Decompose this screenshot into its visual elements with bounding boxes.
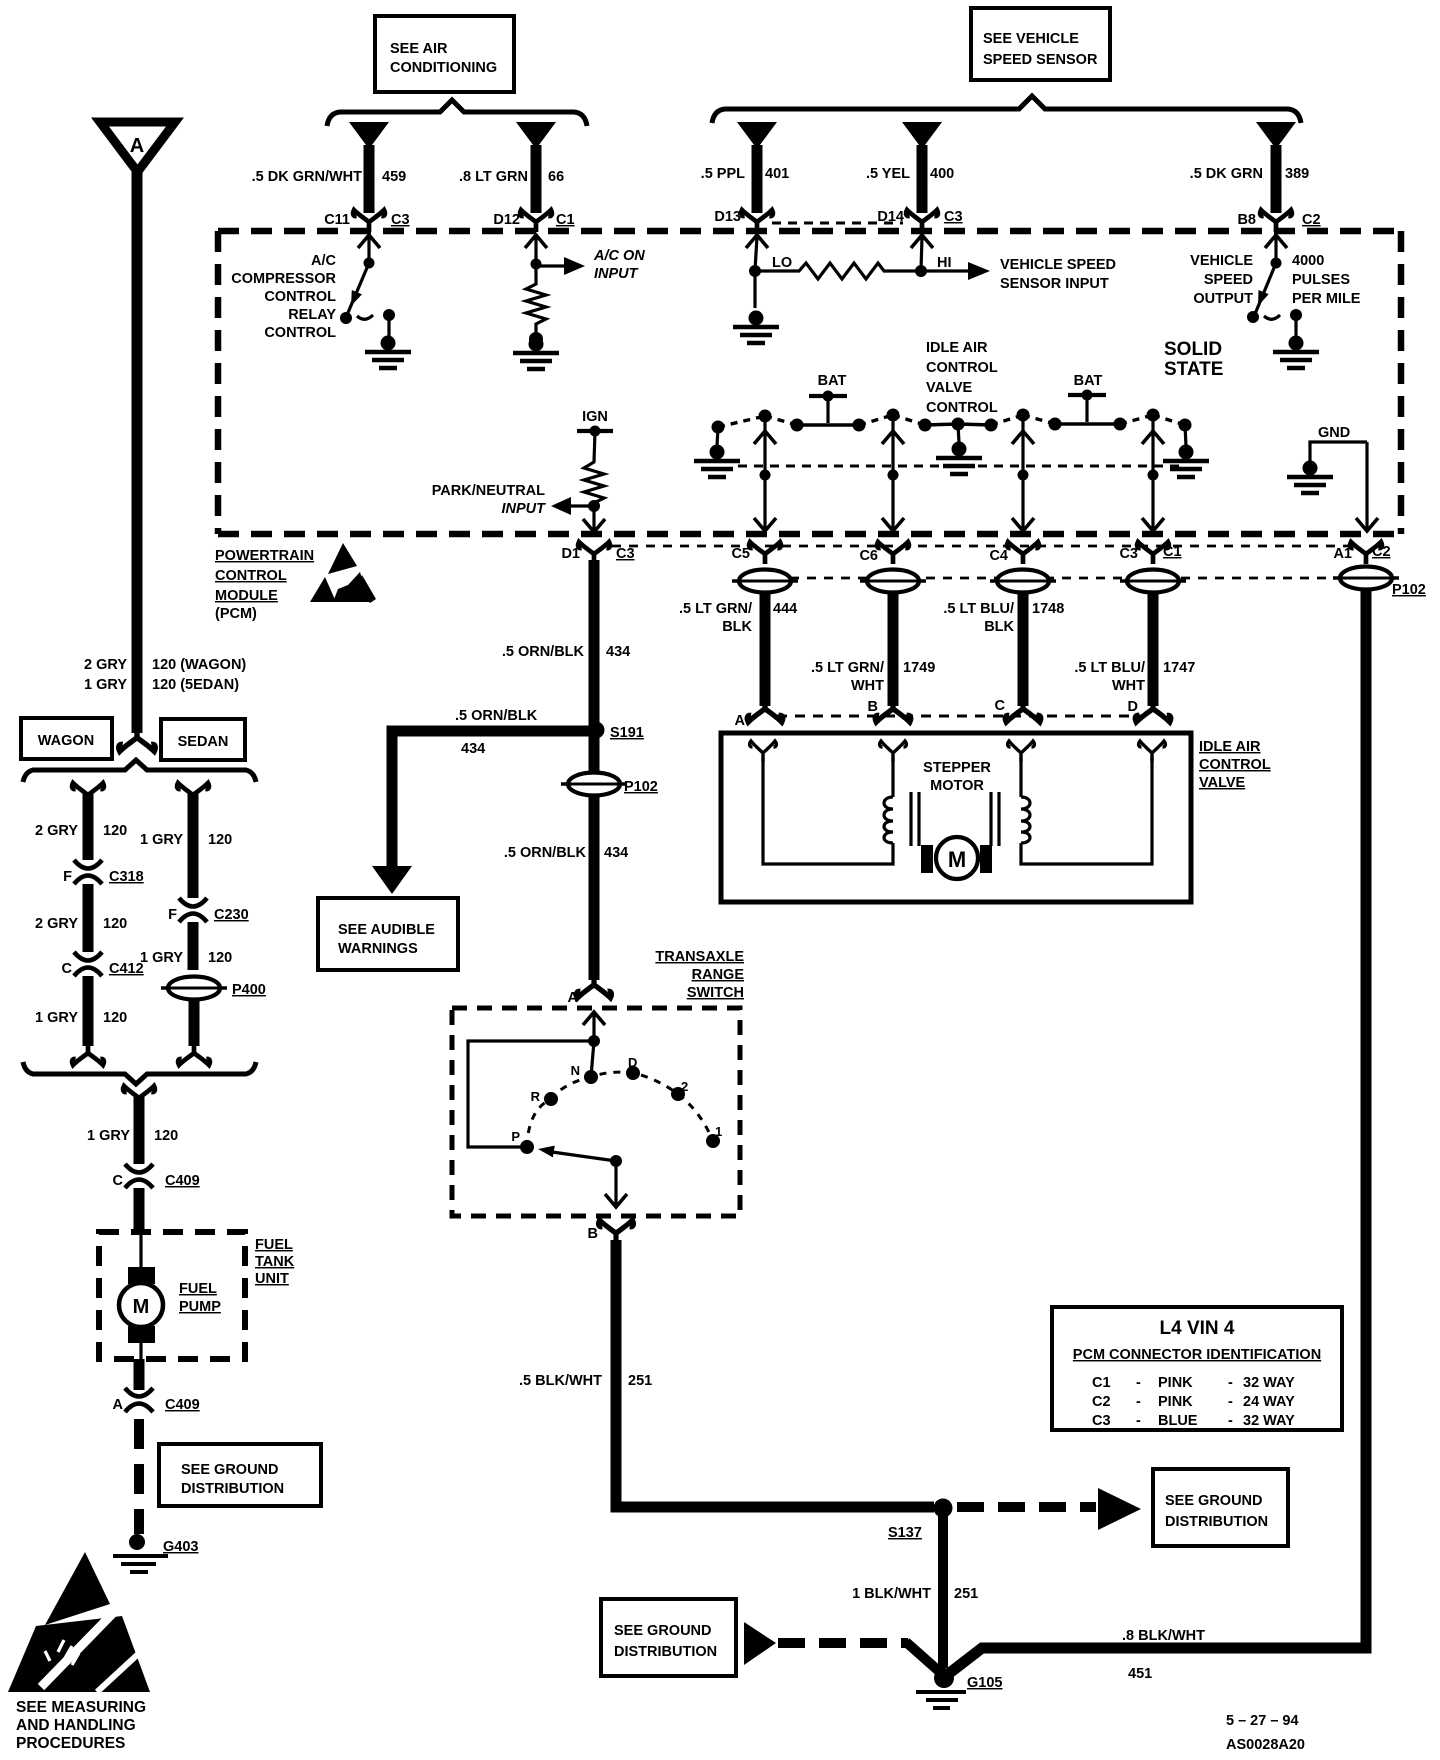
IAC pin forks inside box (750, 741, 777, 762)
IGN feed with park/neutral resistor (551, 409, 613, 532)
svg-text:P102: P102 (624, 779, 658, 795)
harness connector P400 (161, 977, 266, 1000)
svg-text:120 (5EDAN): 120 (5EDAN) (152, 677, 239, 693)
box SEE VEHICLE SPEED SENSOR (971, 8, 1110, 80)
svg-text:PARK/NEUTRAL: PARK/NEUTRAL (432, 483, 545, 499)
svg-text:1 BLK/WHT: 1 BLK/WHT (852, 1586, 931, 1602)
svg-text:251: 251 (628, 1373, 652, 1389)
svg-text:INPUT: INPUT (594, 266, 639, 282)
GND output hook (1310, 425, 1367, 461)
svg-text:CONTROL: CONTROL (1199, 757, 1271, 773)
svg-text:FUEL: FUEL (179, 1281, 217, 1297)
connector C11 C3 (324, 210, 409, 232)
svg-text:SOLID: SOLID (1164, 339, 1222, 360)
svg-text:CONTROL: CONTROL (215, 568, 287, 584)
svg-text:POWERTRAIN: POWERTRAIN (215, 548, 314, 564)
svg-text:P400: P400 (232, 982, 266, 998)
svg-text:1747: 1747 (1163, 660, 1195, 676)
svg-text:.5 ORN/BLK: .5 ORN/BLK (504, 845, 587, 861)
svg-text:TANK: TANK (255, 1254, 295, 1270)
connector C318 pin F (63, 860, 144, 885)
wire arrow .5 PPL 401 (D13) (737, 122, 777, 213)
svg-text:CONDITIONING: CONDITIONING (390, 60, 497, 76)
svg-text:120: 120 (208, 950, 232, 966)
svg-text:1 GRY: 1 GRY (84, 677, 127, 693)
fuel pump feed wire (123, 1086, 155, 1164)
IAC valve box (721, 733, 1191, 902)
wire arrow .5 DK GRN 389 (B8) (1256, 122, 1296, 213)
svg-text:D: D (628, 1055, 637, 1070)
svg-text:S137: S137 (888, 1525, 922, 1541)
svg-text:D12: D12 (493, 212, 520, 228)
TRS input arrow (583, 1012, 605, 1047)
IAC driver line C6 (882, 419, 904, 531)
svg-text:C318: C318 (109, 869, 144, 885)
svg-text:TRANSAXLE: TRANSAXLE (655, 949, 744, 965)
svg-text:.5 ORN/BLK: .5 ORN/BLK (502, 644, 585, 660)
svg-text:STEPPER: STEPPER (923, 760, 991, 776)
ground G105 (916, 1668, 1002, 1708)
TRS contacts P R N D 2 1 (520, 1066, 720, 1154)
svg-text:434: 434 (604, 845, 628, 861)
svg-text:C6: C6 (859, 548, 878, 564)
svg-text:RANGE: RANGE (692, 967, 745, 983)
svg-text:SEE VEHICLE: SEE VEHICLE (983, 31, 1079, 47)
brace under SEE VEHICLE SPEED SENSOR (712, 96, 1301, 123)
box L4 VIN 4 PCM connector identification (1052, 1307, 1342, 1430)
main wire D1 down to A (TRS) (589, 560, 600, 980)
stepper motor M (921, 837, 992, 879)
svg-text:-: - (1136, 1413, 1141, 1429)
connector C409 pin C (113, 1164, 200, 1189)
svg-text:C11: C11 (324, 212, 350, 228)
svg-text:(PCM): (PCM) (215, 606, 257, 622)
svg-text:DISTRIBUTION: DISTRIBUTION (614, 1644, 717, 1660)
TRS wiring loop (468, 1041, 594, 1147)
svg-text:-: - (1228, 1375, 1233, 1391)
svg-text:CONTROL: CONTROL (264, 289, 336, 305)
dashed wire to ground distribution right (957, 1502, 1096, 1512)
BAT feed 1 (809, 373, 847, 423)
svg-text:SPEED: SPEED (1204, 272, 1253, 288)
svg-text:-: - (1228, 1394, 1233, 1410)
labels 2 GRY 120 (WAGON) / 1 GRY 120 (5EDAN) (84, 657, 246, 693)
svg-text:C5: C5 (731, 546, 750, 562)
wire arrow .5 YEL 400 (D14) (902, 122, 942, 213)
svg-text:C2: C2 (1372, 544, 1391, 560)
svg-text:C: C (995, 698, 1006, 714)
svg-text:2 GRY: 2 GRY (35, 823, 78, 839)
svg-text:WHT: WHT (851, 678, 884, 694)
svg-text:VEHICLE: VEHICLE (1190, 253, 1253, 269)
label IDLE AIR CONTROL VALVE (1199, 739, 1271, 791)
svg-text:PER MILE: PER MILE (1292, 291, 1361, 307)
svg-text:P: P (511, 1129, 520, 1144)
label SEE MEASURING AND HANDLING PROCEDURES (16, 1699, 146, 1752)
svg-text:PINK: PINK (1158, 1375, 1193, 1391)
svg-text:SWITCH: SWITCH (687, 985, 744, 1001)
ground on chain middle (936, 424, 982, 474)
box SEE AIR CONDITIONING (375, 16, 514, 92)
svg-text:120: 120 (103, 1010, 127, 1026)
svg-text:24 WAY: 24 WAY (1243, 1394, 1295, 1410)
svg-text:.5 DK GRN/WHT: .5 DK GRN/WHT (252, 169, 363, 185)
svg-text:4000: 4000 (1292, 253, 1324, 269)
svg-text:FUEL: FUEL (255, 1237, 293, 1253)
svg-text:CONTROL: CONTROL (926, 360, 998, 376)
connector B8 C2 (1237, 210, 1320, 232)
wire S137 down to G105 (938, 1516, 948, 1668)
wire end fork at split (119, 726, 156, 751)
svg-text:IGN: IGN (582, 409, 608, 425)
wagon branch wire (72, 783, 104, 860)
label FUEL PUMP (179, 1281, 221, 1315)
svg-text:.5 YEL: .5 YEL (866, 166, 910, 182)
ESD symbol large (8, 1552, 150, 1692)
svg-text:-: - (1136, 1394, 1141, 1410)
svg-text:120 (WAGON): 120 (WAGON) (152, 657, 246, 673)
harness connector oval A1 with P102 label (1333, 567, 1426, 599)
svg-text:C2: C2 (1092, 1394, 1111, 1410)
svg-text:G403: G403 (163, 1539, 198, 1555)
svg-text:.5 PPL: .5 PPL (701, 166, 745, 182)
svg-text:WAGON: WAGON (38, 733, 94, 749)
brace under SEE AIR CONDITIONING (327, 100, 587, 126)
svg-text:444: 444 (773, 601, 797, 617)
TRS contact arc dashed (527, 1072, 713, 1147)
ground on chain right (1163, 425, 1209, 477)
dashed ground wire (134, 1419, 144, 1534)
svg-text:VALVE: VALVE (1199, 775, 1246, 791)
label POWERTRAIN CONTROL MODULE (PCM) (215, 548, 314, 622)
svg-text:B8: B8 (1237, 212, 1256, 228)
svg-text:MODULE: MODULE (215, 588, 278, 604)
svg-text:D1: D1 (561, 546, 580, 562)
ground below vehicle speed output switch (1273, 336, 1319, 369)
dashed crosslink line (738, 465, 1180, 468)
svg-text:SPEED SENSOR: SPEED SENSOR (983, 52, 1098, 68)
wire from triangle A down to wagon/sedan split (132, 172, 143, 733)
svg-text:.5 ORN/BLK: .5 ORN/BLK (455, 708, 538, 724)
svg-text:A1: A1 (1333, 546, 1352, 562)
svg-text:32 WAY: 32 WAY (1243, 1375, 1295, 1391)
svg-text:C4: C4 (989, 548, 1008, 564)
svg-text:IDLE AIR: IDLE AIR (926, 340, 988, 356)
svg-text:VALVE: VALVE (926, 380, 973, 396)
svg-text:.5 BLK/WHT: .5 BLK/WHT (519, 1373, 602, 1389)
TRS dashed box (452, 1008, 740, 1216)
svg-text:.5 LT GRN/: .5 LT GRN/ (811, 660, 884, 676)
svg-text:459: 459 (382, 169, 406, 185)
svg-text:BAT: BAT (818, 373, 847, 389)
harness connector oval C3 (1120, 570, 1186, 593)
connector C230 pin F (168, 898, 249, 923)
svg-text:F: F (63, 869, 72, 885)
label PARK/NEUTRAL INPUT (432, 483, 546, 517)
connector C5 (731, 542, 780, 564)
svg-text:SEE AUDIBLE: SEE AUDIBLE (338, 922, 435, 938)
svg-text:SEE AIR: SEE AIR (390, 41, 448, 57)
svg-text:AS0028A20: AS0028A20 (1226, 1737, 1305, 1753)
label A/C COMPRESSOR CONTROL RELAY CONTROL (231, 253, 336, 341)
svg-text:B: B (868, 699, 878, 715)
harness connector oval C6 (860, 570, 926, 593)
svg-text:STATE: STATE (1164, 359, 1223, 380)
label STEPPER MOTOR (923, 760, 991, 794)
svg-text:SEE MEASURING: SEE MEASURING (16, 1699, 146, 1716)
IAC driver line C4 (1012, 419, 1034, 531)
svg-text:F: F (168, 907, 177, 923)
date and drawing number (1226, 1713, 1305, 1753)
svg-text:DISTRIBUTION: DISTRIBUTION (1165, 1514, 1268, 1530)
harness connector oval C4 (990, 570, 1056, 593)
long wire A1 to G105 (947, 590, 1366, 1675)
svg-text:C3: C3 (391, 212, 410, 228)
label 4000 PULSES PER MILE (1292, 253, 1361, 307)
svg-text:A/C: A/C (311, 253, 337, 269)
fuel pump motor (119, 1232, 163, 1359)
svg-text:B: B (588, 1226, 598, 1242)
svg-text:120: 120 (154, 1128, 178, 1144)
svg-text:S191: S191 (610, 725, 644, 741)
svg-text:.8 BLK/WHT: .8 BLK/WHT (1122, 1628, 1205, 1644)
svg-text:PROCEDURES: PROCEDURES (16, 1735, 125, 1752)
svg-text:HI: HI (937, 255, 952, 271)
dashed wire into G105 (778, 1638, 908, 1648)
svg-text:PUMP: PUMP (179, 1299, 221, 1315)
connector A1 C2 (1333, 542, 1390, 564)
svg-text:BAT: BAT (1074, 373, 1103, 389)
svg-text:CONTROL: CONTROL (264, 325, 336, 341)
connector D1 C3 (561, 542, 634, 564)
svg-text:A: A (568, 990, 579, 1006)
svg-text:DISTRIBUTION: DISTRIBUTION (181, 1481, 284, 1497)
arrow into SEE AUDIBLE WARNINGS (372, 866, 412, 894)
A1 output line (1356, 442, 1378, 531)
svg-text:PINK: PINK (1158, 1394, 1193, 1410)
label VEHICLE SPEED SENSOR INPUT (1000, 257, 1116, 292)
svg-text:1 GRY: 1 GRY (140, 950, 183, 966)
box SEDAN (161, 719, 245, 760)
IAC pin letters and dashed link (777, 715, 1141, 718)
svg-text:SEE GROUND: SEE GROUND (1165, 1493, 1263, 1509)
dashed link across harness ovals to P102 (790, 577, 1400, 580)
svg-text:-: - (1136, 1375, 1141, 1391)
arrow from ground distribution left (744, 1622, 776, 1665)
svg-text:C412: C412 (109, 961, 144, 977)
vehicle speed sensor input LO/HI resistor (746, 235, 990, 308)
svg-text:D14: D14 (877, 209, 904, 225)
box SEE GROUND DISTRIBUTION (fuel) (159, 1444, 321, 1506)
label TRANSAXLE RANGE SWITCH (655, 949, 744, 1001)
svg-text:M: M (948, 847, 966, 872)
svg-text:32 WAY: 32 WAY (1243, 1413, 1295, 1429)
fuel tank unit dashed box (99, 1232, 245, 1359)
box SEE GROUND DISTRIBUTION (right) (1153, 1469, 1288, 1546)
svg-text:2 GRY: 2 GRY (84, 657, 127, 673)
svg-text:M: M (133, 1296, 150, 1318)
svg-text:2: 2 (681, 1079, 688, 1094)
box WAGON (21, 718, 112, 759)
svg-text:389: 389 (1285, 166, 1309, 182)
wire arrow .5 DK GRN/WHT 459 (C11) (349, 122, 389, 213)
connector B below TRS (588, 1220, 634, 1244)
triangle A supply symbol (100, 122, 175, 172)
svg-text:AND HANDLING: AND HANDLING (16, 1717, 136, 1734)
svg-text:.5 DK GRN: .5 DK GRN (1190, 166, 1263, 182)
svg-text:C3: C3 (1119, 546, 1138, 562)
splice S191 branch to audible warnings (392, 722, 644, 869)
svg-text:.5 LT GRN/: .5 LT GRN/ (679, 601, 752, 617)
svg-text:.5 LT BLU/: .5 LT BLU/ (943, 601, 1014, 617)
svg-text:A: A (735, 713, 746, 729)
ground G403 (113, 1534, 198, 1572)
TRS wiper arm (537, 1143, 627, 1207)
svg-text:C3: C3 (1092, 1413, 1111, 1429)
svg-text:UNIT: UNIT (255, 1271, 289, 1287)
svg-text:2 GRY: 2 GRY (35, 916, 78, 932)
svg-text:451: 451 (1128, 1666, 1152, 1682)
svg-text:-: - (1228, 1413, 1233, 1429)
svg-text:400: 400 (930, 166, 954, 182)
harness connector P102 on main wire (561, 773, 658, 796)
connector C409 pin A (113, 1388, 200, 1413)
svg-text:D13: D13 (714, 209, 741, 225)
dashed link D13-D14 (772, 222, 903, 225)
connector D13 (714, 209, 773, 232)
svg-text:C3: C3 (616, 546, 635, 562)
label A/C ON INPUT (593, 248, 645, 282)
svg-text:1749: 1749 (903, 660, 935, 676)
svg-text:P102: P102 (1392, 582, 1426, 598)
harness connector oval C5 (732, 570, 798, 593)
svg-text:C409: C409 (165, 1397, 200, 1413)
svg-text:.5 LT BLU/: .5 LT BLU/ (1074, 660, 1145, 676)
dashed link across connectors (612, 545, 1348, 548)
connector C6 (859, 542, 908, 564)
IAC drive dashed chain (718, 415, 1185, 427)
svg-text:MOTOR: MOTOR (930, 778, 984, 794)
svg-text:C2: C2 (1302, 212, 1321, 228)
label VEHICLE SPEED OUTPUT (1190, 253, 1253, 307)
svg-text:120: 120 (208, 832, 232, 848)
A/C compressor control relay control switch (340, 235, 395, 336)
wire C5 to IAC A (747, 592, 783, 722)
wire dot to N contact (591, 1041, 594, 1077)
svg-text:1748: 1748 (1032, 601, 1064, 617)
ground below A/C relay switch (365, 336, 411, 369)
svg-text:N: N (571, 1063, 580, 1078)
svg-text:C: C (113, 1173, 124, 1189)
svg-text:C1: C1 (1092, 1375, 1111, 1391)
svg-text:VEHICLE SPEED: VEHICLE SPEED (1000, 257, 1116, 273)
ground below A/C ON resistor (513, 337, 559, 370)
svg-text:A: A (130, 135, 144, 157)
wire arrow .8 LT GRN 66 (D12) (516, 122, 556, 213)
svg-text:PCM CONNECTOR IDENTIFICATION: PCM CONNECTOR IDENTIFICATION (1073, 1347, 1321, 1363)
TRS contact labels (511, 1055, 722, 1144)
connector A into TRS (568, 974, 612, 1006)
svg-text:1 GRY: 1 GRY (35, 1010, 78, 1026)
svg-text:SEDAN: SEDAN (178, 734, 229, 750)
svg-text:D: D (1128, 699, 1138, 715)
svg-text:.8 LT GRN: .8 LT GRN (459, 169, 528, 185)
svg-text:LO: LO (772, 255, 792, 271)
svg-text:R: R (531, 1089, 541, 1104)
stepper motor winding C-D (1021, 758, 1152, 864)
svg-text:120: 120 (103, 916, 127, 932)
box SEE AUDIBLE WARNINGS (318, 898, 458, 970)
ESD symbol small (310, 543, 376, 603)
svg-text:SEE GROUND: SEE GROUND (181, 1462, 279, 1478)
sedan branch wire (177, 783, 209, 898)
svg-text:SEE GROUND: SEE GROUND (614, 1623, 712, 1639)
svg-text:66: 66 (548, 169, 564, 185)
chain junction dots (712, 409, 1192, 434)
label IDLE AIR CONTROL VALVE CONTROL (926, 340, 998, 416)
svg-text:WARNINGS: WARNINGS (338, 941, 418, 957)
stepper motor core lines (911, 792, 999, 846)
svg-text:L4 VIN 4: L4 VIN 4 (1160, 1318, 1235, 1339)
svg-text:A/C ON: A/C ON (593, 248, 645, 264)
svg-text:1 GRY: 1 GRY (87, 1128, 130, 1144)
wire C6 to IAC B (875, 592, 911, 722)
vehicle speed output switch (1247, 235, 1302, 336)
svg-text:BLUE: BLUE (1158, 1413, 1198, 1429)
PCM dashed border (218, 231, 1401, 534)
svg-text:BLK: BLK (722, 619, 752, 635)
svg-text:BLK: BLK (984, 619, 1014, 635)
svg-text:C1: C1 (556, 212, 575, 228)
ground for GND output (1287, 461, 1333, 494)
svg-text:G105: G105 (967, 1675, 1002, 1691)
svg-text:SENSOR INPUT: SENSOR INPUT (1000, 276, 1109, 292)
ground below LO (733, 311, 779, 344)
svg-text:C230: C230 (214, 907, 249, 923)
connector D14 C3 (877, 209, 962, 232)
wire C3 to IAC D (1135, 592, 1171, 722)
svg-text:C409: C409 (165, 1173, 200, 1189)
connector C412 pin C (62, 952, 144, 977)
svg-text:5 – 27 – 94: 5 – 27 – 94 (1226, 1713, 1299, 1729)
A/C ON input resistor (525, 235, 585, 346)
svg-text:1: 1 (715, 1124, 722, 1139)
svg-text:401: 401 (765, 166, 789, 182)
ground on chain left (694, 427, 740, 477)
svg-text:251: 251 (954, 1586, 978, 1602)
svg-text:IDLE AIR: IDLE AIR (1199, 739, 1261, 755)
svg-text:INPUT: INPUT (502, 501, 547, 517)
svg-text:434: 434 (461, 741, 485, 757)
BAT feed 2 (1068, 373, 1106, 422)
box SEE GROUND DISTRIBUTION (left) (601, 1599, 736, 1676)
connector C3 C1 (1119, 542, 1181, 564)
svg-text:COMPRESSOR: COMPRESSOR (231, 271, 336, 287)
IAC driver line C5 (754, 420, 776, 531)
connector C4 (989, 542, 1038, 564)
label SOLID STATE (1164, 339, 1223, 380)
svg-text:GND: GND (1318, 425, 1350, 441)
svg-text:C3: C3 (944, 209, 963, 225)
brace merge to fuel pump feed (23, 1062, 256, 1084)
svg-text:RELAY: RELAY (288, 307, 336, 323)
svg-text:434: 434 (606, 644, 630, 660)
wire B down to S137 (616, 1240, 934, 1507)
svg-text:120: 120 (103, 823, 127, 839)
svg-text:A: A (113, 1397, 124, 1413)
connector D12 C1 (493, 210, 574, 232)
label FUEL TANK UNIT (255, 1237, 295, 1287)
